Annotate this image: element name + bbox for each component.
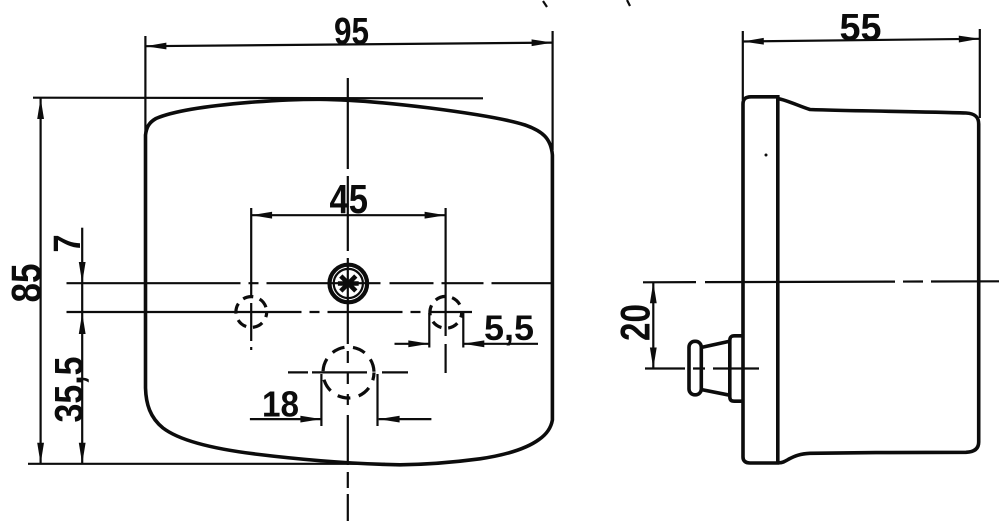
dimension 18 right tail with arrow	[379, 418, 432, 420]
right mounting hole (hidden, dashed)	[430, 296, 462, 328]
stray scan marks	[543, 1, 547, 7]
screw U1 outer circle	[330, 265, 368, 303]
dimension 55 extension line right	[979, 29, 981, 118]
dimension 55 extension line left	[742, 31, 744, 100]
svg-text:45: 45	[330, 176, 369, 222]
dimension 18 extension line left	[320, 374, 322, 426]
svg-text:95: 95	[334, 11, 369, 53]
vertical centerline (front view)	[347, 78, 349, 521]
svg-text:85: 85	[3, 264, 50, 303]
svg-text:55: 55	[840, 7, 882, 49]
dimension 5,5 right tail with arrow	[463, 343, 538, 345]
dimension 5,5 extension line right	[462, 313, 464, 348]
dimension 95 line with arrows	[145, 43, 552, 47]
svg-text:18: 18	[262, 384, 299, 425]
bottom cable hole (hidden, dashed)	[323, 347, 374, 398]
lamp body outline (front view)	[146, 99, 553, 465]
screw inner circle	[334, 269, 363, 298]
dimension 85 extension line top	[33, 97, 483, 100]
side view horizontal centerline	[643, 281, 999, 282]
dimension 55 line with arrows	[743, 39, 980, 42]
screw cross recess	[338, 276, 359, 291]
vertical axis through right hole	[445, 208, 447, 373]
vertical axis through left hole	[250, 208, 252, 350]
svg-text:35,5: 35,5	[48, 357, 92, 423]
side view lens face and rim	[743, 97, 779, 463]
bump flange	[730, 336, 743, 401]
side view housing body outline	[778, 99, 979, 463]
dimension 18 extension line right	[376, 374, 378, 426]
svg-text:7: 7	[47, 235, 89, 253]
dimension 45 line with arrows	[251, 214, 446, 216]
dimension 95 extension line left	[144, 36, 146, 133]
hole centerline (lower, through small holes)	[67, 311, 473, 313]
dimension 18 left tail with arrow	[250, 418, 322, 420]
dimension 7 line with down arrow	[81, 228, 83, 283]
dimension 7 connector	[81, 283, 83, 313]
dimension 35,5 line with arrows	[81, 313, 83, 464]
svg-text:5,5: 5,5	[484, 309, 534, 348]
dimension 95 extension line right	[551, 31, 553, 150]
dimension 20 line with arrows	[652, 282, 654, 368]
dimension 85 extension line bottom	[28, 463, 385, 465]
left mounting hole (hidden, dashed)	[236, 297, 267, 328]
svg-text:20: 20	[612, 304, 659, 341]
bottom hole centerline	[288, 371, 408, 373]
dimension 5,5 extension line left	[428, 313, 430, 348]
bump cone top edge	[701, 341, 730, 347]
horizontal centerline (front view)	[67, 282, 554, 284]
bump centerline	[645, 367, 759, 369]
bump cone bottom edge	[701, 390, 730, 396]
bulb holder bump: tip capsule	[689, 341, 701, 395]
dimension 5,5 left tail with arrow	[395, 343, 430, 345]
dimension 85 line with arrows	[39, 98, 41, 464]
